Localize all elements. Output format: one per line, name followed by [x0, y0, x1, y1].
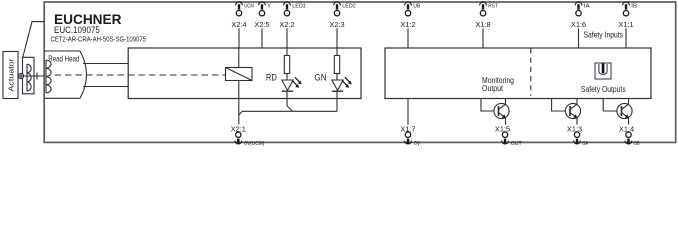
wire X2:4	[238, 28, 240, 48]
svg-text:OB: OB	[634, 141, 640, 147]
svg-text:IA: IA	[584, 4, 590, 10]
svg-text:IB: IB	[631, 4, 637, 10]
LED V1 red	[282, 77, 302, 91]
transistor Q2 safety output OA	[552, 98, 581, 124]
resistor R2	[334, 56, 339, 74]
resistor R1	[284, 56, 289, 74]
node feed point	[18, 73, 23, 78]
svg-text:0V: 0V	[414, 141, 420, 147]
svg-text:X1:5: X1:5	[495, 124, 510, 133]
svg-text:CET2-AR-CRA-AH-50S-SG-109075: CET2-AR-CRA-AH-50S-SG-109075	[51, 35, 147, 44]
wire X2:2 branch	[287, 48, 293, 111]
svg-text:LED2: LED2	[342, 4, 356, 10]
actuator antenna bracket	[23, 57, 35, 94]
wire X1:1	[625, 28, 627, 48]
svg-text:X2:5: X2:5	[254, 20, 269, 29]
connector pin X1:3 OA	[567, 124, 588, 147]
wire actuator axis	[18, 75, 44, 77]
svg-text:X1:8: X1:8	[475, 20, 490, 29]
wire X2:5	[261, 28, 263, 48]
transistor Q1 monitoring output	[481, 98, 509, 124]
svg-text:Safety Inputs: Safety Inputs	[584, 31, 624, 40]
svg-text:X2:2: X2:2	[279, 20, 294, 29]
guard locking icon	[595, 63, 611, 79]
outer frame	[44, 2, 676, 142]
svg-text:UCM: UCM	[244, 4, 254, 10]
connector pin X1:4 OB	[619, 124, 640, 147]
wire relay top to X2:4	[238, 48, 240, 68]
connector pin X1:8 RST	[475, 2, 498, 29]
actuator box	[3, 52, 18, 99]
svg-text:OA: OA	[582, 141, 588, 147]
axis tick	[36, 73, 38, 80]
wire X2:3	[336, 28, 338, 48]
connector pin X2:5 Y	[254, 2, 271, 29]
wire X2:3 branch	[336, 48, 338, 111]
svg-text:Y: Y	[267, 4, 271, 10]
svg-text:Actuator: Actuator	[7, 58, 16, 92]
connector pin X2:3 LED2	[329, 2, 355, 29]
wire relay bottom to X2:1	[238, 81, 240, 125]
coupling axis dashed line	[55, 74, 226, 76]
relay K1	[226, 68, 253, 81]
svg-text:X1:4: X1:4	[619, 124, 634, 133]
svg-text:GN: GN	[314, 73, 326, 83]
LED V2 green	[332, 77, 352, 91]
wire X1:8	[482, 28, 484, 48]
svg-text:X2:3: X2:3	[329, 20, 344, 29]
svg-text:Output: Output	[482, 84, 504, 93]
wire X1:6	[578, 28, 580, 48]
transistor Q3 safety output OB	[603, 98, 632, 124]
wire X1:2	[407, 28, 409, 48]
svg-text:OUT: OUT	[511, 141, 522, 147]
safety unit box	[385, 48, 651, 99]
actuator coil L1	[27, 64, 31, 91]
connector pin X2:1 0V(UCM)	[231, 124, 265, 147]
connector pin X1:6 IA	[571, 2, 590, 29]
svg-text:X1:6: X1:6	[571, 20, 586, 29]
connector pin X1:5 OUT	[495, 124, 522, 147]
wire X2:2	[286, 28, 288, 48]
svg-text:X1:1: X1:1	[618, 20, 633, 29]
svg-text:X2:4: X2:4	[231, 20, 246, 29]
svg-text:UB: UB	[413, 4, 420, 10]
svg-text:Read Head: Read Head	[48, 54, 79, 63]
leader line from label area to actuator assembly	[23, 22, 44, 58]
svg-text:RST: RST	[488, 4, 498, 10]
svg-text:LED1: LED1	[292, 4, 306, 10]
svg-text:X1:2: X1:2	[400, 20, 415, 29]
cable between read head and evaluation unit	[83, 64, 128, 87]
wire LED return bus	[239, 111, 337, 115]
svg-text:RD: RD	[266, 73, 277, 83]
connector pin X1:7 0V	[400, 124, 420, 147]
svg-text:X1:3: X1:3	[567, 124, 582, 133]
evaluation unit box	[128, 48, 361, 99]
connector pin X2:2 LED1	[279, 2, 305, 29]
read head box	[44, 51, 86, 98]
separator dashed	[530, 49, 532, 97]
read head coil L2	[46, 60, 51, 93]
connector pin X1:1 IB	[618, 2, 637, 29]
connector pin X2:4 UCM	[231, 2, 254, 29]
svg-text:Safety Outputs: Safety Outputs	[581, 85, 626, 94]
wire X1:7	[407, 98, 409, 124]
svg-text:0V(UCM): 0V(UCM)	[244, 141, 264, 147]
connector pin X1:2 UB	[400, 2, 420, 29]
